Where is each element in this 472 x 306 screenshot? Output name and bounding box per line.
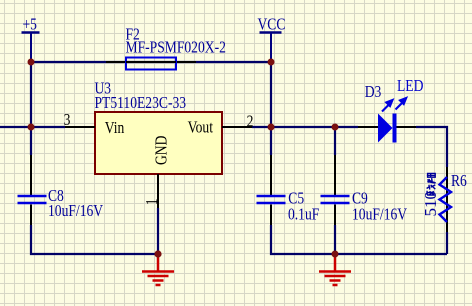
junction VCC column / main rail	[268, 124, 275, 131]
fuse F2	[106, 25, 226, 69]
ground symbol right	[319, 254, 351, 285]
svg-text:LED: LED	[397, 76, 423, 95]
svg-text:0.1uF: 0.1uF	[288, 205, 319, 224]
svg-text:1: 1	[143, 198, 162, 205]
wire C8 branch	[30, 127, 32, 155]
junction U3 GND / left ground rail	[154, 250, 161, 257]
svg-text:Vin: Vin	[105, 119, 125, 138]
wire main rail left	[0, 126, 65, 128]
component U3 PT5110E23C-33 regulator	[95, 79, 223, 174]
junction VCC / top rail	[268, 59, 275, 66]
junction +5 / top rail	[28, 59, 35, 66]
wire C8 to left ground rail	[31, 225, 158, 254]
pin 1 of U3 (GND)	[143, 174, 162, 254]
capacitor C8	[18, 155, 104, 225]
svg-text:GND: GND	[152, 136, 171, 165]
svg-text:PT5110E23C-33: PT5110E23C-33	[95, 94, 187, 113]
capacitor C5	[257, 155, 320, 225]
svg-text:R6: R6	[451, 172, 467, 191]
wire LED cathode to R6 corner	[416, 127, 447, 167]
LED D3	[358, 76, 423, 142]
svg-text:3: 3	[64, 110, 71, 129]
wire +5 vertical to main rail	[30, 62, 32, 127]
svg-text:Vout: Vout	[188, 118, 214, 137]
svg-text:10uF/16V: 10uF/16V	[352, 205, 407, 224]
wire R6 bottom	[446, 232, 448, 254]
svg-text:VCC: VCC	[258, 15, 286, 34]
power port +5	[22, 15, 40, 62]
pin 2 of U3	[222, 112, 253, 131]
wire C9 bottom	[334, 225, 336, 254]
capacitor C9	[321, 155, 408, 225]
svg-text:+5: +5	[23, 15, 38, 34]
wire VCC vertical to main rail	[270, 62, 272, 127]
wire C5 branch	[270, 127, 272, 155]
resistor R6	[421, 167, 467, 232]
svg-text:10uF/16V: 10uF/16V	[48, 201, 103, 220]
ground symbol left	[142, 254, 174, 285]
power port VCC	[258, 15, 286, 62]
wire main rail right	[252, 126, 358, 128]
pin 3 of U3	[64, 110, 95, 129]
wire bottom right rail	[271, 225, 447, 254]
junction C9 / main rail	[332, 124, 339, 131]
svg-text:D3: D3	[365, 83, 382, 102]
svg-text:2: 2	[247, 112, 254, 131]
wire C9 branch	[334, 127, 336, 155]
junction +5 column / main rail	[28, 124, 35, 131]
wire top rail	[31, 61, 271, 63]
junction C9 / bottom rail	[332, 251, 339, 258]
svg-text:MF-PSMF020X-2: MF-PSMF020X-2	[126, 38, 226, 57]
